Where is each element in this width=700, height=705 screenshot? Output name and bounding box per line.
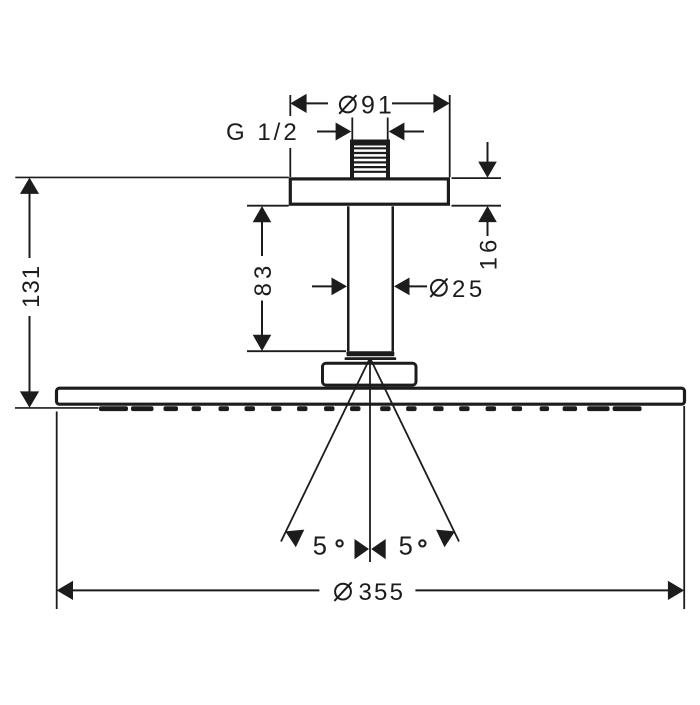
svg-text:91: 91 (361, 91, 395, 119)
svg-text:25: 25 (452, 276, 486, 303)
svg-text:131: 131 (18, 265, 45, 308)
svg-text:G 1/2: G 1/2 (226, 119, 300, 146)
svg-text:5: 5 (313, 532, 329, 560)
svg-text:5: 5 (399, 532, 415, 560)
svg-text:16: 16 (476, 236, 503, 271)
svg-text:83: 83 (250, 262, 277, 297)
svg-text:355: 355 (359, 579, 406, 606)
